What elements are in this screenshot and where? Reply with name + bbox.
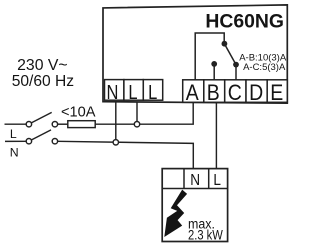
svg-text:2.3 kW: 2.3 kW <box>188 227 223 242</box>
svg-text:D: D <box>249 81 263 106</box>
svg-text:L: L <box>213 172 221 189</box>
svg-text:L: L <box>148 80 157 103</box>
svg-text:N: N <box>107 80 119 103</box>
svg-text:HC60NG: HC60NG <box>205 10 284 32</box>
svg-text:B: B <box>207 81 220 106</box>
svg-text:N: N <box>190 172 200 189</box>
svg-text:L: L <box>128 80 137 103</box>
svg-text:<10A: <10A <box>61 105 96 121</box>
svg-text:E: E <box>270 81 283 106</box>
svg-text:N: N <box>10 146 19 160</box>
svg-text:A-C:5(3)A: A-C:5(3)A <box>243 62 286 73</box>
svg-text:C: C <box>228 81 242 106</box>
svg-text:50/60 Hz: 50/60 Hz <box>12 73 75 90</box>
svg-text:230 V~: 230 V~ <box>17 57 68 74</box>
svg-text:L: L <box>10 127 17 141</box>
svg-text:A: A <box>186 81 199 106</box>
